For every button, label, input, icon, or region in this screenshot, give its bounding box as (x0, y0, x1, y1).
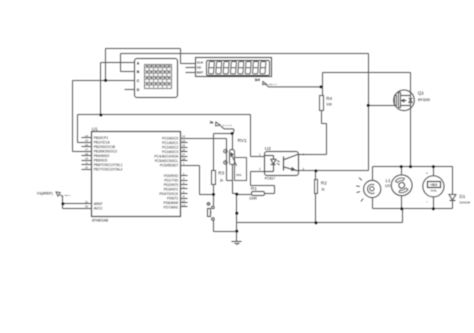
svg-text:AVCC: AVCC (94, 206, 104, 210)
svg-text:3v4: 3v4 (255, 78, 260, 82)
svg-text:50%: 50% (236, 173, 242, 177)
svg-text:L1: L1 (385, 178, 391, 183)
svg-text:220R: 220R (249, 197, 257, 201)
svg-text:PB1/OC1A: PB1/OC1A (94, 140, 111, 144)
svg-text:PD2/INT0: PD2/INT0 (164, 183, 179, 187)
svg-text:18: 18 (85, 152, 89, 156)
svg-text:PB3/MOSI/OC2: PB3/MOSI/OC2 (94, 149, 117, 153)
svg-text:10K: 10K (326, 103, 333, 107)
svg-text:PC4/ADC4/SDA: PC4/ADC4/SDA (154, 155, 179, 159)
svg-text:14: 14 (85, 134, 89, 138)
svg-text:ATMEGA8: ATMEGA8 (92, 218, 108, 222)
svg-text:11: 11 (182, 194, 185, 198)
svg-text:PD3/INT1: PD3/INT1 (164, 187, 179, 191)
svg-text:1k: 1k (220, 178, 224, 182)
svg-text:Q1: Q1 (418, 91, 425, 97)
svg-text:PC0/ADC0: PC0/ADC0 (162, 137, 178, 141)
svg-text:V1(AREF): V1(AREF) (37, 192, 53, 196)
svg-text:+: + (426, 171, 428, 175)
svg-text:U1: U1 (92, 126, 98, 132)
svg-text:17: 17 (85, 148, 89, 152)
svg-text:A: A (137, 61, 140, 65)
svg-text:PB6/TOSC1/XTAL1: PB6/TOSC1/XTAL1 (94, 163, 123, 167)
svg-text:D1: D1 (459, 194, 465, 199)
svg-text:27: 27 (182, 153, 186, 157)
svg-text:PB4/MISO: PB4/MISO (94, 154, 110, 158)
svg-text:16: 16 (85, 143, 89, 147)
svg-text:19: 19 (85, 157, 89, 161)
svg-text:B: B (137, 70, 140, 74)
svg-text:15: 15 (85, 139, 89, 143)
svg-text:CE: CE (197, 66, 201, 70)
svg-text:10: 10 (85, 166, 89, 170)
svg-text:PC2/ADC2: PC2/ADC2 (162, 146, 178, 150)
svg-text:25: 25 (182, 144, 186, 148)
svg-text:PD7/AIN1: PD7/AIN1 (164, 205, 179, 209)
svg-text:PD1/TXD: PD1/TXD (164, 178, 179, 182)
svg-text:PB7/TOSC2/XTAL2: PB7/TOSC2/XTAL2 (94, 167, 123, 171)
svg-text:C: C (137, 79, 140, 83)
svg-text:3a: 3a (210, 120, 214, 124)
svg-text:PC5/ADC5/SCL: PC5/ADC5/SCL (155, 159, 179, 163)
svg-text:R4: R4 (326, 96, 332, 101)
svg-text:1N4148: 1N4148 (459, 200, 470, 204)
svg-text:R1: R1 (251, 186, 257, 191)
svg-text:PD6/AIN0: PD6/AIN0 (164, 201, 179, 205)
svg-text:R2: R2 (321, 180, 327, 185)
svg-text:+88.8: +88.8 (430, 183, 437, 187)
svg-text:D: D (137, 88, 140, 92)
svg-text:PB0/ICP1: PB0/ICP1 (94, 136, 109, 140)
svg-text:26: 26 (182, 148, 186, 152)
svg-text:28: 28 (182, 157, 186, 161)
svg-text:IRF3205: IRF3205 (418, 98, 430, 102)
svg-text:24: 24 (182, 139, 186, 143)
svg-text:12: 12 (182, 199, 186, 203)
svg-text:Volts: Volts (430, 189, 437, 193)
svg-text:CLK: CLK (197, 60, 204, 64)
svg-text:23: 23 (182, 135, 186, 139)
svg-text:PC3/ADC3: PC3/ADC3 (162, 150, 178, 154)
svg-text:PD5/T1: PD5/T1 (167, 196, 178, 200)
svg-text:PC817: PC817 (265, 177, 275, 181)
svg-text:PD4/T0/XCK: PD4/T0/XCK (159, 192, 179, 196)
svg-text:RST: RST (197, 71, 203, 75)
svg-text:RV1: RV1 (238, 138, 248, 144)
svg-text:1k: 1k (321, 188, 325, 192)
svg-text:PC1/ADC1: PC1/ADC1 (162, 141, 178, 145)
svg-text:PD0/RXD: PD0/RXD (164, 174, 179, 178)
svg-text:12V: 12V (385, 184, 392, 188)
svg-text:20: 20 (85, 204, 89, 208)
svg-text:PB2/SS/OC1B: PB2/SS/OC1B (94, 145, 116, 149)
svg-text:PB5/SCK: PB5/SCK (94, 158, 109, 162)
svg-text:PC6/RESET: PC6/RESET (160, 164, 178, 168)
svg-text:R3: R3 (218, 171, 224, 176)
svg-text:13: 13 (182, 203, 186, 207)
svg-text:U2: U2 (265, 146, 271, 152)
